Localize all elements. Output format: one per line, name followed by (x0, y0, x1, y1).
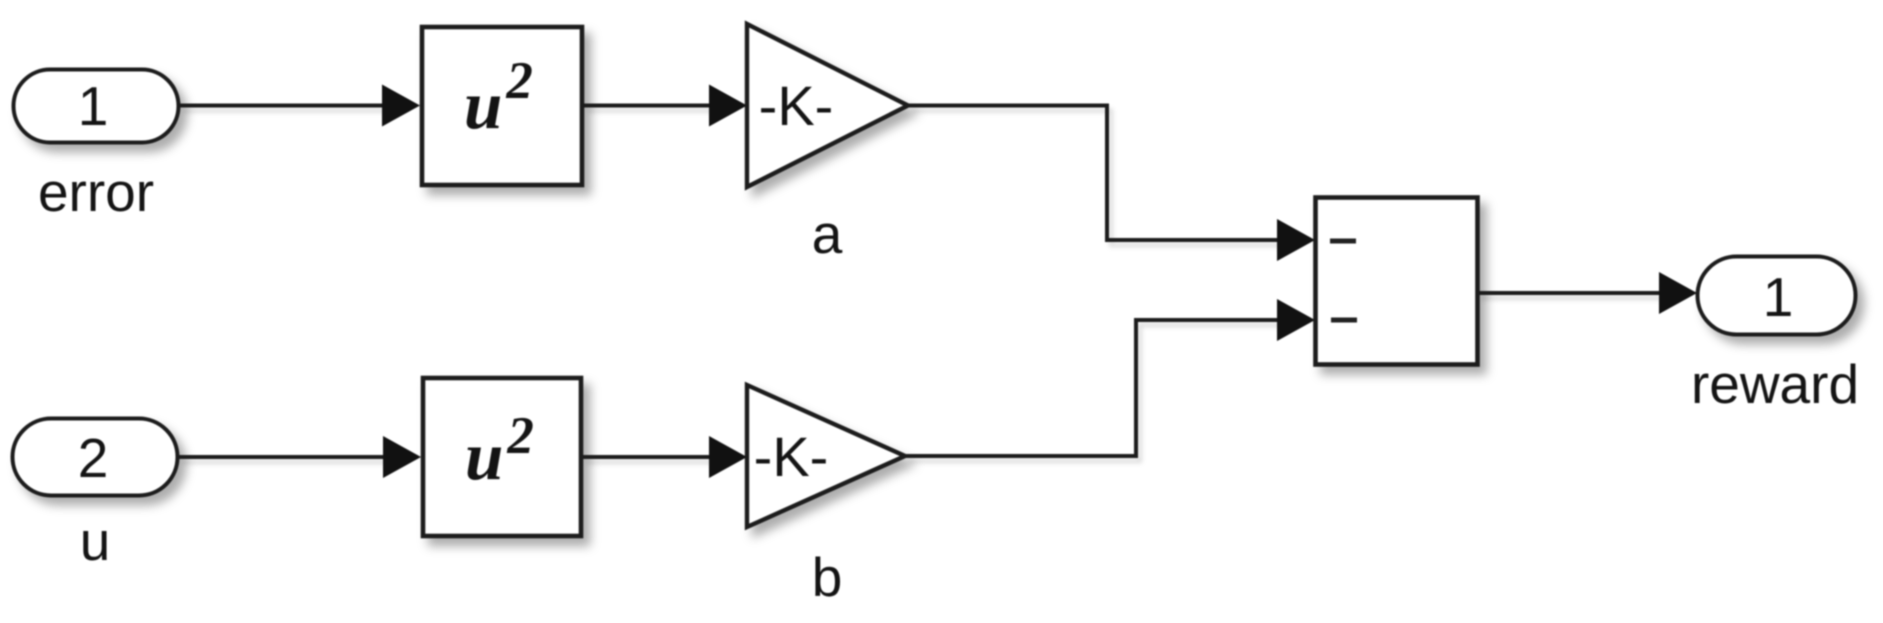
wire W2: square block to gain a (584, 85, 747, 127)
sum (subtract) block (1316, 198, 1478, 365)
math function block u^2 (top) (422, 27, 582, 185)
label reward (1691, 353, 1859, 415)
inport 2 pill (u) (13, 419, 178, 496)
svg-text:1: 1 (1763, 266, 1794, 328)
wire W7: sum output to outport (1478, 272, 1698, 314)
label a (812, 203, 843, 265)
wire W1: inport1 to square block (179, 85, 420, 127)
svg-text:b: b (812, 546, 843, 608)
svg-text:-K-: -K- (759, 74, 834, 137)
label error (38, 161, 154, 223)
inport 1 pill (error) (14, 70, 179, 143)
wire W4: inport2 to square block (178, 436, 421, 478)
wire W5: square block to gain b (583, 436, 747, 478)
label b (812, 546, 843, 608)
svg-text:error: error (38, 161, 154, 223)
svg-text:-K-: -K- (754, 425, 829, 488)
gain block a (-K-) (747, 24, 908, 187)
gain block b (-K-) (747, 385, 905, 527)
svg-text:reward: reward (1691, 353, 1859, 415)
svg-text:2: 2 (78, 427, 109, 489)
wire W6: gain b to sum input 2 (905, 299, 1315, 456)
math function block u^2 (bottom) (423, 378, 581, 536)
minus sign for sum input 2 (1331, 318, 1357, 323)
outport 1 pill (reward) (1698, 257, 1856, 335)
minus sign for sum input 1 (1330, 239, 1356, 244)
label u (80, 510, 111, 572)
svg-text:u: u (80, 510, 111, 572)
wire W3: gain a to sum input 1 (908, 106, 1315, 262)
svg-text:1: 1 (78, 75, 109, 137)
svg-text:a: a (812, 203, 843, 265)
